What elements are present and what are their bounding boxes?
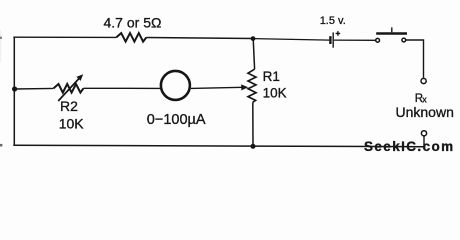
wire: Rx lower terminal to bottom bus xyxy=(423,136,425,147)
node: junction dot on left bus at middle branch xyxy=(12,86,17,91)
node: junction dot at bottom of R1 xyxy=(251,144,256,149)
wire: switch to right corner xyxy=(406,40,424,78)
meter M1 0-100uA body xyxy=(161,71,190,100)
wire: left vertical bus xyxy=(13,37,15,145)
resistor R1 10K zigzag xyxy=(248,69,256,102)
svg-text:SeekIC.com: SeekIC.com xyxy=(364,139,455,154)
wire: middle branch from left bus to R2 xyxy=(15,87,54,90)
svg-text:0−100µA: 0−100µA xyxy=(147,112,206,128)
label: battery plus sign xyxy=(336,31,341,36)
battery B1 1.5V positive plate xyxy=(332,32,334,47)
svg-text:Unknown: Unknown xyxy=(396,104,454,120)
switch S1 actuator stub xyxy=(391,27,393,32)
wire: bottom horizontal bus xyxy=(13,145,424,147)
wire: R1 bottom lead xyxy=(252,102,254,146)
svg-text:10K: 10K xyxy=(263,86,287,101)
switch S1 left terminal xyxy=(376,38,380,42)
wire: meter to R1 wiper with arrow xyxy=(191,87,243,88)
terminal: Rx lower open terminal xyxy=(421,131,426,136)
svg-text:R2: R2 xyxy=(60,98,78,114)
switch S1 pushbutton bar xyxy=(376,32,407,35)
terminal: Rx upper open terminal xyxy=(421,78,426,83)
artifact: left edge tick bottom xyxy=(0,144,2,147)
svg-text:R1: R1 xyxy=(263,69,280,84)
wire: top segment from junction to battery xyxy=(253,39,329,41)
svg-text:4.7 or 5Ω: 4.7 or 5Ω xyxy=(104,14,162,30)
wire: battery to switch xyxy=(334,39,375,41)
artifact: faint left edge smudge xyxy=(0,30,1,62)
resistor R2 rheostat arrow xyxy=(58,79,79,102)
wire: top left segment xyxy=(13,36,116,38)
wire: R2 to meter xyxy=(84,87,161,89)
svg-text:1.5 v.: 1.5 v. xyxy=(320,15,346,27)
wire: R1 top lead xyxy=(253,39,254,70)
svg-text:10K: 10K xyxy=(59,116,85,132)
node: junction dot at top of R1 xyxy=(251,36,256,41)
resistor 4.7 or 5 ohm xyxy=(116,33,146,42)
switch S1 right terminal xyxy=(402,38,406,42)
artifact: left edge tick top xyxy=(0,37,2,39)
battery B1 1.5V negative plate xyxy=(329,36,331,44)
resistor R2 10K zigzag xyxy=(54,84,84,93)
wire: top segment from resistor to R1 junction xyxy=(146,38,253,39)
